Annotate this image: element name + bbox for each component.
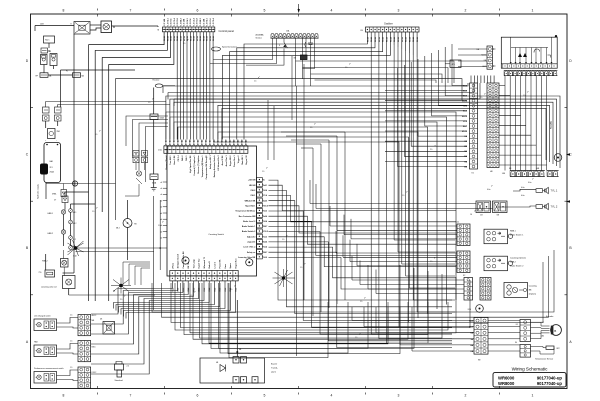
- svg-text:X4.2: X4.2: [263, 235, 267, 238]
- svg-text:K1: K1: [516, 324, 518, 326]
- svg-text:2.5 K1.8: 2.5 K1.8: [197, 17, 199, 25]
- svg-text:(Option): (Option): [529, 293, 537, 296]
- svg-text:2.5: 2.5: [120, 299, 122, 301]
- svg-text:M: M: [113, 26, 115, 29]
- svg-text:1.5 K4.1: 1.5 K4.1: [166, 17, 169, 25]
- svg-text:A4.4: A4.4: [263, 215, 267, 218]
- svg-text:H8: H8: [490, 171, 492, 173]
- svg-text:Wiring Schematic: Wiring Schematic: [512, 366, 548, 371]
- svg-text:Coasting: Coasting: [529, 285, 537, 288]
- svg-text:Safety sw BK 1: Safety sw BK 1: [209, 156, 212, 170]
- svg-text:(Plus): (Plus): [172, 263, 174, 269]
- svg-text:RBB.1: RBB.1: [510, 231, 517, 233]
- svg-text:1.5 C2.4: 1.5 C2.4: [173, 17, 176, 25]
- svg-text:K1: K1: [472, 173, 474, 175]
- svg-text:Spare: Spare: [230, 263, 232, 268]
- svg-text:a4: a4: [160, 182, 162, 184]
- svg-text:F1: F1: [66, 71, 68, 73]
- svg-text:Temperature Sensor: Temperature Sensor: [535, 358, 553, 361]
- svg-text:CB 1 4: CB 1 4: [177, 155, 180, 162]
- svg-text:4.0a: 4.0a: [487, 189, 490, 191]
- svg-text:K4.18: K4.18: [386, 37, 389, 42]
- svg-text:Accel Part 1: Accel Part 1: [225, 156, 228, 167]
- svg-text:M4.7: M4.7: [263, 251, 267, 254]
- svg-text:HBB.1: HBB.1: [48, 213, 53, 215]
- svg-text:Coasting (Option): Coasting (Option): [510, 257, 526, 260]
- svg-text:4B.12: 4B.12: [92, 315, 97, 317]
- svg-text:K4.18: K4.18: [193, 36, 196, 41]
- svg-text:4.0a: 4.0a: [528, 182, 531, 184]
- svg-text:KA.8: KA.8: [469, 326, 473, 329]
- svg-text:Transd-: Transd-: [271, 368, 278, 370]
- svg-text:Power Run 1: Power Run 1: [234, 156, 236, 167]
- svg-text:Lowering valve sol: Lowering valve sol: [41, 286, 57, 289]
- svg-text:8: 8: [63, 394, 65, 398]
- svg-text:K4.18: K4.18: [183, 36, 186, 41]
- svg-text:4.0a: 4.0a: [521, 187, 525, 189]
- svg-text:K20: K20: [468, 309, 471, 311]
- svg-text:K4.18: K4.18: [166, 36, 169, 41]
- svg-text:KA.8: KA.8: [463, 90, 467, 93]
- svg-text:2.5 8 14: 2.5 8 14: [189, 18, 192, 26]
- svg-text:2.5 8 14: 2.5 8 14: [170, 18, 173, 26]
- svg-text:K4.18: K4.18: [212, 36, 215, 41]
- svg-text:Tow Lamp: Tow Lamp: [193, 258, 195, 268]
- svg-text:K2: K2: [463, 275, 465, 277]
- svg-text:2.5 14B: 2.5 14B: [163, 18, 166, 26]
- svg-text:Standard: Standard: [115, 379, 123, 382]
- svg-text:Horn 1 BK: Horn 1 BK: [174, 155, 176, 165]
- svg-text:2: 2: [465, 394, 467, 398]
- svg-text:90177040-up: 90177040-up: [537, 381, 563, 386]
- svg-text:Level 1 Ret.w: Level 1 Ret.w: [243, 246, 256, 249]
- svg-text:K4.18: K4.18: [378, 37, 381, 42]
- svg-text:WR6000: WR6000: [498, 375, 515, 380]
- svg-text:2.5 8 14: 2.5 8 14: [209, 18, 212, 26]
- svg-text:1.5: 1.5: [254, 81, 256, 83]
- svg-text:Compression SW Return 2: Compression SW Return 2: [205, 156, 208, 180]
- svg-text:Hyprd SA 1: Hyprd SA 1: [245, 204, 255, 207]
- svg-text:1.5: 1.5: [262, 171, 264, 173]
- svg-text:Safety ns: Safety ns: [247, 251, 255, 254]
- svg-text:1.5 B8.2: 1.5 B8.2: [180, 17, 182, 25]
- svg-text:A4.6: A4.6: [263, 199, 267, 202]
- svg-text:a4: a4: [160, 213, 162, 215]
- svg-text:2.5: 2.5: [430, 149, 432, 151]
- svg-text:K4.18: K4.18: [389, 37, 392, 42]
- svg-text:WR8000: WR8000: [498, 381, 515, 386]
- svg-text:HB GM: HB GM: [249, 185, 256, 187]
- svg-text:Regen BK 2: Regen BK 2: [230, 156, 232, 167]
- svg-text:K4.18: K4.18: [393, 37, 396, 42]
- svg-text:Service: Service: [256, 36, 262, 39]
- svg-text:KA.16: KA.16: [462, 115, 467, 118]
- svg-text:Brake R: Brake R: [209, 261, 211, 269]
- svg-text:a4: a4: [160, 188, 162, 190]
- svg-text:K4.18: K4.18: [412, 37, 415, 42]
- svg-text:High Speed Rev BK: High Speed Rev BK: [190, 155, 192, 173]
- svg-text:1.5: 1.5: [480, 97, 482, 99]
- svg-text:8: 8: [71, 24, 72, 26]
- svg-text:1.5: 1.5: [92, 211, 94, 213]
- svg-text:DAL 2: DAL 2: [181, 156, 184, 161]
- svg-text:16: 16: [470, 214, 472, 216]
- svg-text:Main BK 1: Main BK 1: [242, 156, 244, 165]
- svg-text:Battery Activator Switch: Battery Activator Switch: [213, 155, 216, 178]
- svg-text:K4.18: K4.18: [401, 37, 404, 42]
- svg-text:a4: a4: [160, 200, 162, 202]
- svg-text:5: 5: [264, 394, 266, 398]
- svg-text:KB.6: KB.6: [92, 347, 96, 349]
- svg-text:1.5 C2.4: 1.5 C2.4: [193, 17, 196, 25]
- svg-text:alarm: alarm: [271, 372, 276, 374]
- svg-text:Grabber: Grabber: [384, 23, 393, 26]
- svg-text:D-part Tow: D-part Tow: [198, 258, 201, 268]
- svg-text:K4.18: K4.18: [202, 36, 205, 41]
- svg-text:Hydraulic supply: Hydraulic supply: [38, 184, 40, 199]
- svg-text:NoroBo: NoroBo: [551, 120, 553, 129]
- svg-text:7: 7: [130, 394, 132, 398]
- svg-text:7YL.1: 7YL.1: [551, 189, 558, 193]
- svg-text:Brake Switch 2: Brake Switch 2: [510, 265, 524, 268]
- svg-text:X61.6: X61.6: [263, 205, 268, 207]
- svg-text:Turn SW 1: Turn SW 1: [170, 156, 172, 165]
- svg-text:Control panel: Control panel: [219, 29, 235, 33]
- svg-text:Accel 2 BK: Accel 2 BK: [221, 155, 224, 166]
- svg-text:X4.2: X4.2: [263, 210, 267, 213]
- svg-text:Adjustful: Adjustful: [247, 235, 256, 238]
- svg-text:Temperature (M) Motor 1: Temperature (M) Motor 1: [201, 156, 204, 178]
- svg-text:K4: K4: [515, 342, 517, 344]
- svg-text:C11: C11: [456, 222, 459, 224]
- svg-text:2: 2: [465, 9, 467, 13]
- svg-text:3B.2: 3B.2: [116, 228, 120, 230]
- svg-text:K4.18: K4.18: [416, 37, 419, 42]
- svg-text:Brake Switch 1: Brake Switch 1: [510, 234, 524, 237]
- svg-text:K4.18: K4.18: [163, 36, 166, 41]
- svg-text:3: 3: [398, 9, 400, 13]
- svg-text:2F1: 2F1: [50, 167, 53, 169]
- svg-text:Brake Level 2: Brake Level 2: [243, 221, 255, 223]
- svg-text:K4.18: K4.18: [370, 37, 373, 42]
- svg-text:Jogturtle: Jogturtle: [247, 241, 255, 244]
- svg-text:M8: M8: [471, 339, 474, 341]
- svg-text:H3B.2: H3B.2: [42, 261, 48, 263]
- svg-text:1.5: 1.5: [70, 367, 72, 369]
- svg-text:HB.2: HB.2: [73, 223, 77, 225]
- svg-text:1.5: 1.5: [70, 315, 72, 317]
- svg-text:2.5: 2.5: [183, 43, 185, 45]
- svg-text:X4.9: X4.9: [263, 256, 267, 259]
- svg-text:1.5 K4.1: 1.5 K4.1: [206, 17, 209, 25]
- svg-text:6: 6: [197, 9, 199, 13]
- svg-text:X10.2: X10.2: [263, 231, 268, 233]
- svg-text:K4.18: K4.18: [196, 36, 199, 41]
- svg-text:Brake Switch 2: Brake Switch 2: [242, 230, 255, 233]
- svg-text:a4: a4: [160, 231, 162, 233]
- svg-text:HB2: HB2: [34, 342, 38, 344]
- svg-text:3HBL: 3HBL: [52, 194, 57, 196]
- svg-text:1: 1: [532, 394, 534, 398]
- svg-text:K4.18: K4.18: [374, 37, 377, 42]
- svg-text:1.5: 1.5: [148, 102, 150, 104]
- svg-text:Forward (T) Hopkins 1: Forward (T) Hopkins 1: [194, 156, 196, 176]
- svg-text:a4: a4: [160, 207, 162, 209]
- svg-text:1.5: 1.5: [70, 341, 72, 343]
- svg-text:1.5: 1.5: [523, 95, 525, 97]
- svg-text:a4: a4: [160, 194, 162, 196]
- svg-text:Conv Hydraulic BK: Conv Hydraulic BK: [183, 251, 185, 269]
- svg-text:1.5: 1.5: [310, 127, 312, 129]
- svg-text:K4.18: K4.18: [170, 36, 173, 41]
- svg-text:RBB.2: RBB.2: [510, 262, 517, 264]
- svg-text:A4.4: A4.4: [263, 241, 267, 244]
- svg-text:Lowering Valve BK: Lowering Valve BK: [238, 257, 256, 259]
- svg-text:BK Tilt: BK Tilt: [187, 262, 190, 268]
- svg-text:a4: a4: [160, 225, 162, 227]
- svg-text:1.5: 1.5: [402, 195, 404, 197]
- svg-text:2.2: 2.2: [127, 366, 130, 368]
- svg-text:1.5: 1.5: [345, 67, 347, 69]
- svg-text:1.5: 1.5: [190, 295, 192, 297]
- svg-text:1.5: 1.5: [205, 157, 207, 159]
- svg-text:X4.4: X4.4: [263, 220, 267, 223]
- svg-text:4: 4: [331, 9, 333, 13]
- svg-text:+CB GM: +CB GM: [248, 180, 256, 182]
- svg-text:1.5 C2.4: 1.5 C2.4: [212, 17, 215, 25]
- svg-text:2M1: 2M1: [57, 131, 61, 133]
- svg-text:KA.6: KA.6: [463, 110, 467, 113]
- svg-text:1.5: 1.5: [430, 261, 432, 263]
- svg-text:K4.18: K4.18: [199, 36, 202, 41]
- svg-text:3: 3: [398, 394, 400, 398]
- svg-text:K4.18: K4.18: [366, 37, 369, 42]
- svg-text:K4.18: K4.18: [189, 36, 192, 41]
- svg-text:K4.18: K4.18: [209, 36, 212, 41]
- svg-text:1.5 B8.2: 1.5 B8.2: [200, 17, 202, 25]
- svg-text:a4: a4: [160, 219, 162, 221]
- svg-text:Wforward T1: Wforward T1: [204, 257, 206, 268]
- svg-text:L11 enlarged switch: L11 enlarged switch: [34, 315, 51, 318]
- svg-text:1.5: 1.5: [360, 301, 362, 303]
- svg-text:4: 4: [331, 394, 333, 398]
- svg-text:X4.4: X4.4: [263, 189, 267, 192]
- svg-text:Temperature All Motor: Temperature All Motor: [235, 210, 255, 213]
- svg-text:1.5: 1.5: [230, 289, 232, 291]
- svg-text:K4.18: K4.18: [173, 36, 176, 41]
- svg-text:CHL1: CHL1: [250, 195, 255, 197]
- svg-text:L/R Infrared Bu 2: L/R Infrared Bu 2: [218, 156, 220, 171]
- svg-text:CAL 1: CAL 1: [185, 156, 188, 161]
- svg-text:Level 1: Level 1: [214, 262, 216, 268]
- svg-text:7: 7: [130, 9, 132, 13]
- svg-text:14.2: 14.2: [73, 239, 76, 241]
- svg-text:2.5 K1.8: 2.5 K1.8: [177, 17, 179, 25]
- svg-text:2YL: 2YL: [39, 272, 42, 274]
- svg-text:Reverse (T) Hopkins: Reverse (T) Hopkins: [198, 156, 200, 174]
- svg-text:HBB.2: HBB.2: [48, 233, 53, 235]
- svg-text:1D Spare Clutch: 1D Spare Clutch: [177, 253, 180, 268]
- svg-text:K4.18: K4.18: [180, 36, 183, 41]
- svg-text:Performance announcement switc: Performance announcement switch: [34, 367, 64, 370]
- svg-text:a4: a4: [160, 238, 162, 240]
- svg-text:KA.7: KA.7: [463, 125, 467, 128]
- svg-text:1CU: 1CU: [158, 150, 163, 152]
- svg-text:2.5 14B: 2.5 14B: [183, 18, 186, 26]
- svg-text:K4.18: K4.18: [408, 37, 411, 42]
- svg-text:1.5: 1.5: [355, 337, 357, 339]
- svg-text:A4.1: A4.1: [263, 184, 267, 187]
- svg-text:Regen 2 B: Regen 2 B: [246, 155, 248, 165]
- svg-text:1: 1: [532, 9, 534, 13]
- svg-text:5: 5: [264, 9, 266, 13]
- svg-text:X1.4: X1.4: [263, 194, 267, 197]
- svg-text:K4.18: K4.18: [382, 37, 385, 42]
- svg-text:7YL.2: 7YL.2: [551, 205, 558, 209]
- svg-text:1.5: 1.5: [95, 134, 97, 136]
- svg-text:M4.7: M4.7: [263, 225, 267, 228]
- svg-text:K4.18: K4.18: [176, 36, 179, 41]
- svg-text:Non Contactor BM: Non Contactor BM: [239, 215, 256, 218]
- svg-text:K4.18: K4.18: [405, 37, 408, 42]
- svg-text:K4.18: K4.18: [206, 36, 209, 41]
- svg-text:Resistor: Resistor: [153, 79, 160, 82]
- svg-text:B: B: [554, 329, 556, 333]
- svg-text:8: 8: [63, 9, 65, 13]
- svg-text:Reverse (Flash): Reverse (Flash): [166, 155, 168, 169]
- svg-text:CHL2: CHL2: [250, 190, 255, 192]
- svg-text:4.0a: 4.0a: [521, 195, 525, 197]
- svg-text:2.5 14B: 2.5 14B: [202, 18, 205, 26]
- svg-text:1.5: 1.5: [158, 225, 160, 227]
- svg-text:1.5: 1.5: [282, 239, 284, 241]
- svg-text:HB.1: HB.1: [73, 212, 77, 214]
- svg-text:Coasting Switch: Coasting Switch: [208, 233, 224, 236]
- svg-text:X4.4: X4.4: [263, 246, 267, 249]
- svg-text:Brake Switch 1: Brake Switch 1: [242, 225, 255, 228]
- svg-text:90177040-up: 90177040-up: [537, 375, 563, 380]
- svg-text:1.5 K4.1: 1.5 K4.1: [186, 17, 189, 25]
- svg-text:Power BK: Power BK: [220, 259, 222, 269]
- svg-text:AT-DBBA: AT-DBBA: [256, 34, 265, 37]
- svg-text:BA1: BA1: [50, 160, 53, 163]
- svg-text:Regen Run: Regen Run: [236, 258, 238, 269]
- svg-text:Buzzer: Buzzer: [271, 364, 278, 366]
- svg-text:Trigger 2: Trigger 2: [238, 156, 240, 164]
- svg-text:6: 6: [197, 394, 199, 398]
- svg-text:KA.4: KA.4: [469, 320, 473, 323]
- svg-text:K4.18: K4.18: [397, 37, 400, 42]
- svg-text:Horn: Horn: [45, 40, 49, 42]
- svg-text:Speed transducer: Speed transducer: [222, 46, 237, 49]
- svg-text:1.5: 1.5: [300, 267, 302, 269]
- svg-text:WBL2x1 BK: WBL2x1 BK: [245, 200, 256, 202]
